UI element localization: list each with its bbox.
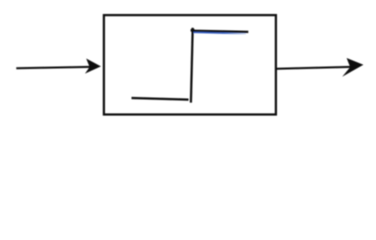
- step symbol upper segment (blue underlay line): [194, 32, 247, 33]
- step symbol upper segment: [193, 31, 248, 32]
- node (junction dot at top of step): [191, 28, 195, 32]
- step symbol lower segment: [132, 98, 189, 100]
- block U1 (relay nonlinearity box): [104, 15, 276, 114]
- input arrowhead: [85, 59, 101, 74]
- wire (output arrow shaft): [277, 67, 352, 69]
- output arrowhead: [342, 58, 363, 77]
- wire (input arrow shaft): [16, 67, 90, 68]
- step symbol vertical segment: [191, 28, 193, 103]
